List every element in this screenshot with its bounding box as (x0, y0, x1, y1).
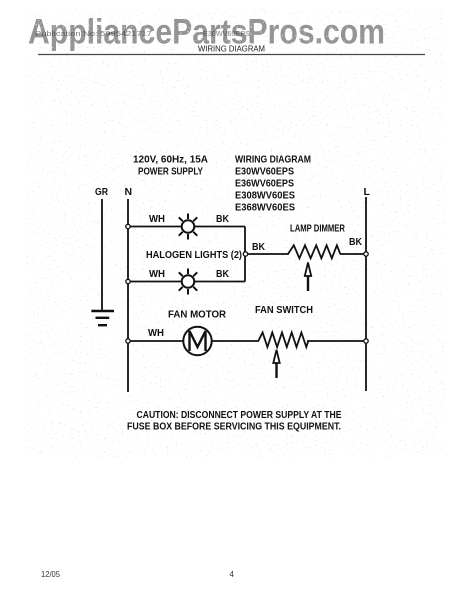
wire dimmer row left (245, 253, 289, 255)
svg-text:12/05: 12/05 (41, 570, 61, 579)
svg-text:FAN SWITCH: FAN SWITCH (255, 304, 313, 316)
svg-text:L: L (364, 186, 371, 198)
svg-text:BK: BK (252, 241, 265, 253)
node L-dimmer (364, 252, 368, 256)
svg-text:CAUTION: DISCONNECT POWER SUPP: CAUTION: DISCONNECT POWER SUPPLY AT THE (137, 409, 342, 421)
node N-bottom (126, 279, 130, 283)
lamp halogen light 1 (179, 214, 197, 240)
node L-fan (364, 339, 368, 343)
scan background noise (25, 8, 445, 458)
svg-text:E36WV60EPS: E36WV60EPS (235, 178, 294, 190)
svg-text:BK: BK (216, 213, 229, 225)
svg-text:4: 4 (230, 570, 235, 579)
svg-text:LAMP DIMMER: LAMP DIMMER (290, 223, 345, 235)
ground (91, 311, 114, 325)
node halogen-dimmer junction (243, 252, 247, 256)
wire halogen top row (128, 226, 245, 228)
motor fan motor (183, 327, 211, 355)
wire fan row left (128, 340, 183, 342)
svg-text:GR: GR (95, 186, 108, 198)
svg-text:WIRING DIAGRAM: WIRING DIAGRAM (198, 43, 265, 53)
node N-top (126, 224, 130, 228)
wire halogen right vertical (244, 227, 246, 282)
svg-text:HALOGEN LIGHTS (2): HALOGEN LIGHTS (2) (146, 249, 242, 261)
svg-text:WIRING DIAGRAM: WIRING DIAGRAM (235, 154, 311, 166)
svg-text:E368WV60ES: E368WV60ES (235, 201, 295, 213)
node N-fan (126, 339, 130, 343)
fan switch wiper arrow (273, 350, 279, 378)
svg-text:WH: WH (149, 268, 165, 280)
resistor lamp dimmer (288, 245, 340, 258)
svg-text:Publication No: 5995421717: Publication No: 5995421717 (35, 29, 152, 38)
svg-text:FAN MOTOR: FAN MOTOR (168, 309, 226, 321)
svg-text:FUSE BOX BEFORE SERVICING THIS: FUSE BOX BEFORE SERVICING THIS EQUIPMENT… (127, 421, 341, 433)
lamp halogen light 2 (179, 269, 197, 295)
svg-text:E30WV60EPS: E30WV60EPS (235, 166, 294, 178)
svg-text:120V, 60Hz, 15A: 120V, 60Hz, 15A (133, 154, 208, 166)
wire halogen bottom row (128, 281, 245, 283)
svg-text:E308WV60ES: E308WV60ES (235, 190, 295, 202)
wire L vertical (365, 197, 367, 391)
wire fan row middle (212, 340, 259, 342)
svg-text:WH: WH (149, 213, 165, 225)
wire dimmer row right (340, 253, 366, 255)
svg-text:N: N (125, 186, 133, 198)
dimmer wiper arrow (305, 263, 311, 292)
svg-text:POWER SUPPLY: POWER SUPPLY (138, 166, 203, 178)
svg-text:WH: WH (148, 327, 164, 339)
header rule (38, 54, 425, 56)
wire GR vertical (101, 199, 103, 311)
svg-text:BK: BK (349, 236, 362, 248)
resistor fan switch (258, 333, 308, 348)
wire N vertical (127, 199, 129, 392)
svg-text:E30WV60EPS: E30WV60EPS (203, 29, 250, 38)
svg-text:BK: BK (216, 268, 229, 280)
wire fan row right (307, 340, 366, 342)
